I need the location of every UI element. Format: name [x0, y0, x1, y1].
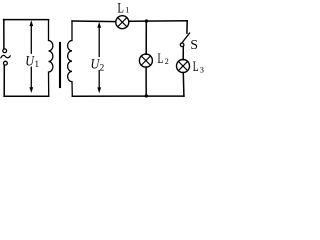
- switch S blade: [182, 33, 190, 43]
- transformer secondary coil T1: [68, 21, 73, 96]
- wire: switch to lamp L3: [182, 47, 184, 60]
- svg-text:1: 1: [125, 5, 129, 14]
- svg-text:3: 3: [200, 66, 204, 75]
- wire: L2 branch upper: [145, 21, 147, 54]
- lamp L2: [139, 54, 152, 67]
- ac source terminal upper: [3, 49, 7, 53]
- wire: right loop bottom: [72, 95, 184, 97]
- wire: lamp L3 to bottom-right corner: [182, 73, 185, 97]
- svg-text:L: L: [158, 51, 164, 67]
- node junction dot top: [145, 19, 148, 22]
- wire: left loop top: [4, 19, 49, 21]
- svg-text:L: L: [117, 0, 124, 16]
- wire: L2 branch lower: [145, 67, 147, 96]
- wire: left loop bottom: [4, 95, 49, 97]
- wire: left loop left side upper: [3, 20, 5, 49]
- svg-text:L: L: [193, 59, 199, 75]
- voltage arrow U2 (double headed): [98, 27, 100, 56]
- node junction dot bottom: [145, 94, 148, 97]
- svg-text:2: 2: [165, 57, 169, 66]
- voltage arrow U1 (double headed): [30, 26, 32, 53]
- wire: right side upper (corner to switch): [186, 21, 188, 33]
- switch S pivot: [180, 43, 184, 47]
- wire: top, junction to top-right corner: [146, 20, 187, 22]
- lamp L1: [116, 16, 129, 29]
- svg-text:2: 2: [100, 63, 105, 73]
- wire: right loop top, secondary to lamp L1: [72, 20, 116, 23]
- ac source tilde: [1, 55, 10, 57]
- svg-text:1: 1: [34, 60, 39, 70]
- svg-text:S: S: [190, 38, 198, 53]
- ac source terminal lower: [4, 61, 8, 65]
- transformer core: [59, 43, 61, 87]
- transformer primary coil T1: [49, 20, 53, 97]
- lamp L3: [177, 60, 190, 73]
- wire: left loop left side lower: [3, 66, 5, 97]
- wire: top, lamp L1 to junction: [129, 20, 146, 22]
